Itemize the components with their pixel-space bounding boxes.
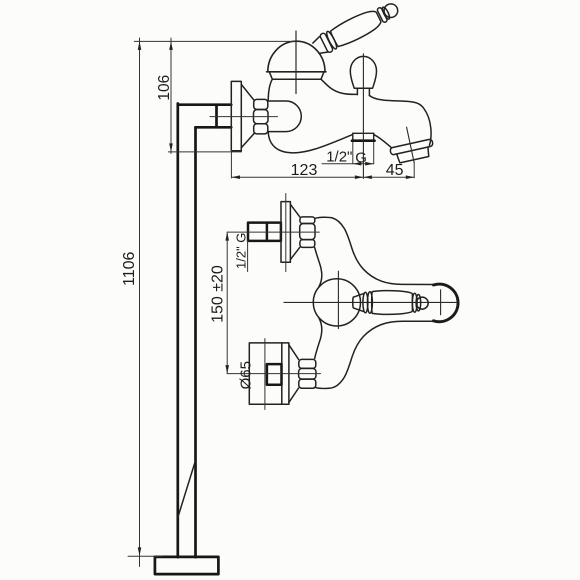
svg-text:Ø65: Ø65 <box>237 361 254 389</box>
aerator (tilted) <box>390 139 436 165</box>
fv body left edge upper <box>315 248 322 287</box>
diverter knob <box>350 56 376 88</box>
floor base plate <box>155 557 219 574</box>
body bottom bulge <box>268 132 352 153</box>
fv body left edge lower <box>315 318 322 358</box>
dimension 1106 line <box>139 38 141 567</box>
dimension line 123 / 45 <box>232 176 415 178</box>
fv handle end collar <box>412 293 417 312</box>
fv circle vertical centerline <box>337 271 339 328</box>
inlet boss <box>268 101 301 132</box>
fv top pipe stub <box>248 223 281 241</box>
riser column <box>178 104 196 558</box>
fv bottom horizontal centerline <box>227 373 320 375</box>
wall flange cone (side) <box>241 84 254 147</box>
svg-text:1/2" G: 1/2" G <box>234 233 249 269</box>
svg-text:106: 106 <box>156 75 173 101</box>
aerator centerline <box>407 127 415 163</box>
dimension 1/2"G arrows <box>322 163 374 165</box>
fv main horizontal centerline <box>284 301 458 303</box>
fv top flange cone <box>290 204 299 259</box>
fv top hex nut <box>300 217 315 248</box>
fv bottom cone <box>289 345 299 403</box>
fv bottom hex nut <box>299 359 316 388</box>
column break line <box>178 461 196 518</box>
lever handle (side) <box>311 0 402 58</box>
fv horn tick <box>440 290 442 315</box>
wall flange plate (side) <box>231 81 241 150</box>
fv handle ball <box>416 297 428 309</box>
extension line flange (left of 123) <box>230 151 232 178</box>
spout top <box>369 96 431 146</box>
wall supply elbow pipe <box>178 105 231 128</box>
svg-text:45: 45 <box>386 162 404 179</box>
fv handle collar <box>363 292 368 313</box>
extension line bottom (base plane) <box>128 555 162 557</box>
shower outlet recess 1/2"G <box>353 133 374 140</box>
fv top horizontal centerline <box>227 231 319 233</box>
fv cartridge circle <box>313 279 360 326</box>
fv top flange plate <box>281 202 290 263</box>
fv handle stem <box>353 294 364 312</box>
dome cap <box>268 41 325 72</box>
fv top vertical centerline <box>285 194 287 272</box>
svg-text:150 ±20: 150 ±20 <box>209 265 226 323</box>
fv body top lobe <box>315 217 434 284</box>
inlet centerline <box>210 116 278 118</box>
fv bottom cup Ø65 <box>249 343 289 404</box>
extension line top (dome top) <box>134 40 296 42</box>
fv body bottom lobe <box>315 321 434 388</box>
fv label underline <box>247 240 249 272</box>
extension line 106 bottom <box>168 151 241 153</box>
svg-text:1/2": 1/2" <box>326 149 352 166</box>
union hex nut (side) <box>254 99 269 133</box>
svg-text:1106: 1106 <box>121 251 138 286</box>
bonnet skirt <box>269 72 324 79</box>
svg-text:123: 123 <box>291 162 318 179</box>
dome centerline <box>295 31 297 94</box>
fv spout horn end cap <box>434 284 459 322</box>
fv bottom vertical centerline <box>264 339 266 410</box>
outlet extension lines <box>353 142 374 164</box>
diverter / outlet centerline <box>362 54 364 179</box>
body outline left <box>268 79 272 101</box>
body saddle to diverter <box>321 79 357 94</box>
dimension 106 line <box>170 38 172 154</box>
diverter stem <box>357 88 369 95</box>
dimension 150 ±20 line <box>226 232 228 374</box>
fv handle grip <box>372 291 413 315</box>
spout bottom <box>374 135 392 148</box>
fv bottom square stub <box>267 364 282 385</box>
svg-text:G: G <box>355 150 367 167</box>
